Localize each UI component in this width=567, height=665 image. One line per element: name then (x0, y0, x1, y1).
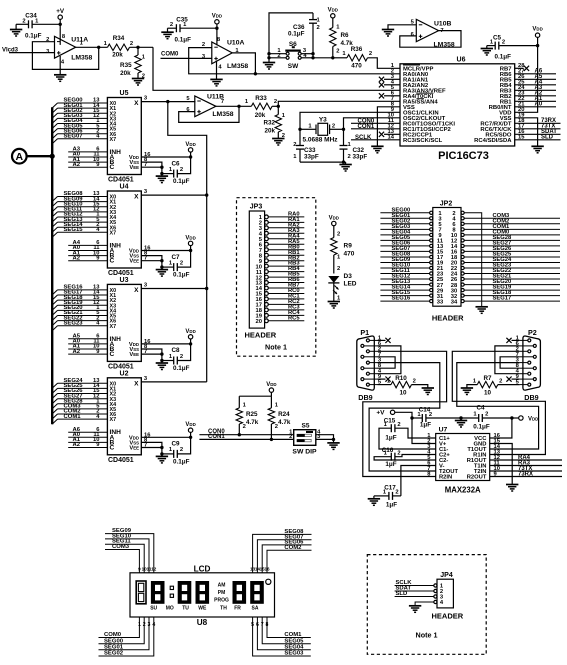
wire JP3 pin2 net RA1 (259, 217, 305, 227)
wire node A to bus (27, 154, 55, 159)
wire R36 to PIC MCLR (368, 58, 401, 69)
node U4 X junction (205, 193, 208, 196)
svg-text:2: 2 (336, 49, 339, 55)
svg-text:X: X (134, 380, 139, 387)
wire JP2 pin23 net SEG11 (380, 268, 444, 278)
wire net SEG07 to U5 X7 (52, 134, 107, 144)
capacitor C16 (382, 447, 401, 468)
wire S6 left pins (269, 54, 286, 63)
op-amp U11B (186, 94, 233, 118)
LCD bottom-left pin numbers (138, 622, 155, 628)
net label SEG04 (284, 644, 304, 650)
wire net COM2 to LCD (267, 550, 312, 573)
wire net A6 to U2 INH (68, 427, 107, 433)
svg-text:8: 8 (266, 622, 269, 628)
svg-text:4.7k: 4.7k (278, 419, 291, 426)
connector P2 DB9 (516, 328, 541, 402)
svg-text:SEG16: SEG16 (392, 296, 411, 302)
resistor R36 (333, 46, 372, 69)
svg-text:LM358: LM358 (71, 54, 92, 61)
wire JP2 pin1 net SEG00 (380, 207, 442, 217)
wire U3 VSS/VEE to ground (141, 344, 163, 362)
wire GND pin15 to ground (490, 444, 513, 485)
svg-text:HEADER: HEADER (432, 612, 464, 621)
svg-text:1μF: 1μF (385, 435, 396, 442)
wire U2 VDD pin16 (141, 432, 190, 438)
svg-text:0.1μF: 0.1μF (173, 178, 190, 185)
capacitor C33 (293, 129, 319, 162)
svg-text:R2IN: R2IN (439, 475, 452, 481)
wire JP4 pin4 to ground (415, 600, 444, 606)
wire C15 pin1 to C1- (379, 428, 436, 449)
wire net A0 to U4 A (68, 245, 107, 251)
svg-text:COM1: COM1 (284, 632, 302, 638)
svg-text:3: 3 (148, 622, 151, 628)
svg-text:2: 2 (413, 378, 416, 384)
wire JP2 pin24 net SEG22 (451, 268, 560, 278)
LCD digit TU (178, 581, 192, 604)
svg-text:7: 7 (144, 162, 147, 168)
net label SEG03 (284, 651, 304, 657)
capacitor C14 (412, 407, 461, 429)
ground for R10 (422, 388, 434, 395)
LCD top-right pin numbers (250, 567, 270, 572)
capacitor C6 (162, 157, 191, 185)
wire JP3 pin19 net RC4 (256, 310, 305, 320)
svg-text:R32: R32 (263, 120, 275, 127)
wire U3 X output (141, 288, 206, 290)
capacitor C9 (162, 437, 191, 465)
ground for C5 (481, 46, 493, 55)
svg-text:0.1μF: 0.1μF (173, 365, 190, 372)
svg-text:P2: P2 (528, 328, 537, 337)
driver U7 MAX232A (427, 427, 500, 495)
svg-text:PM: PM (218, 590, 226, 596)
svg-text:COM2: COM2 (284, 545, 302, 551)
wire U10A pin4 to ground (216, 61, 218, 79)
svg-text:SEG07: SEG07 (64, 134, 84, 140)
svg-text:2: 2 (143, 622, 146, 628)
wire JP3 pin6 net RA5 (259, 239, 305, 249)
wire P1 pin3 to MAX232 T2OUT (369, 363, 440, 471)
svg-text:2: 2 (337, 266, 340, 272)
svg-text:C5: C5 (493, 35, 502, 42)
wire net SEG25 to U2 X1 (52, 383, 107, 393)
LCD dot circle (266, 579, 271, 584)
capacitor C15 (384, 417, 401, 441)
net label SEG06 (284, 540, 304, 546)
capacitor C17 (374, 484, 401, 508)
wire JP2 pin12 net SEG28 (451, 235, 560, 245)
ground for U11A (54, 75, 66, 82)
wire net COM1 to U2 X7 (52, 414, 107, 424)
svg-text:SU: SU (150, 606, 157, 612)
node VDD/C5 junction (536, 44, 539, 47)
wire net SEG13 to U4 X5 (52, 217, 107, 227)
resistor R32 (263, 106, 285, 139)
wire JP3 pin18 net RC3 (256, 305, 305, 315)
resistor R35 (120, 47, 146, 79)
ground for PIC VSS pin19 (531, 146, 543, 153)
wire net SEG01 to U5 X1 (52, 103, 107, 113)
svg-text:Note 1: Note 1 (416, 630, 438, 639)
wire P2 pin2 to MAX232 R1IN (452, 351, 545, 454)
wire JP3 pin8 net RB1 (259, 250, 305, 260)
wire net SEG15 to U4 X7 (52, 227, 107, 237)
svg-text:U3: U3 (120, 277, 129, 284)
resistor R6 (330, 25, 354, 58)
svg-text:10: 10 (484, 389, 492, 396)
svg-text:CD4051: CD4051 (108, 177, 134, 184)
wire net SEG17 to U3 X1 (52, 290, 107, 300)
svg-text:DB9: DB9 (524, 393, 538, 402)
svg-text:JP2: JP2 (440, 200, 453, 207)
no-connect P1 pin1 (378, 338, 391, 343)
net COM0 (161, 51, 179, 57)
svg-text:COM3: COM3 (112, 544, 130, 550)
wire net A1 to U5 B (68, 157, 107, 163)
wire net A0 to U3 A (68, 339, 107, 345)
wire net A2 to U5 C (68, 162, 107, 168)
svg-text:RC4/SDI/SDA: RC4/SDI/SDA (474, 138, 512, 144)
svg-text:R2OUT: R2OUT (467, 475, 487, 481)
svg-text:SEG15: SEG15 (64, 227, 84, 233)
wire JP3 pin10 net RB3 (256, 261, 305, 271)
svg-text:X: X (134, 194, 139, 201)
svg-text:2: 2 (180, 167, 183, 173)
LCD digit FR (233, 581, 247, 604)
wire VDD to PIC pin20 (515, 46, 538, 113)
wire JP3 pin17 net RC2 (256, 299, 305, 309)
capacitor C34 (16, 13, 60, 40)
svg-text:470: 470 (351, 63, 362, 70)
wire U11A feedback (32, 42, 98, 70)
svg-text:5.0688 MHz: 5.0688 MHz (303, 136, 339, 143)
svg-text:2: 2 (499, 378, 502, 384)
resistor R10 (378, 375, 428, 397)
svg-text:2: 2 (395, 490, 398, 496)
wire JP2 pin30 net SEG19 (451, 285, 560, 295)
wire net SEG07 to LCD (257, 540, 311, 573)
crystal Y3 (300, 116, 344, 143)
node VDD/C35 junction (215, 27, 218, 30)
wire C16 pin2 to C2+ (395, 455, 436, 457)
svg-text:SLD: SLD (541, 135, 554, 141)
svg-text:PROG: PROG (214, 598, 229, 604)
wire R33 to PIC RA5 (278, 101, 400, 106)
node C32 ground junction (342, 160, 345, 163)
svg-text:SEG17: SEG17 (493, 296, 512, 302)
wire JP3 pin11 net RB4 (256, 266, 304, 276)
svg-text:A2: A2 (72, 162, 80, 168)
JP3 dashed outline Note 1 box (237, 198, 316, 357)
wire +V to V+ pin2 (395, 412, 436, 443)
ground for R35 (132, 79, 144, 86)
svg-text:U4: U4 (120, 184, 129, 191)
svg-text:4.7k: 4.7k (246, 419, 259, 426)
wire net SEG14 to U4 X6 (52, 222, 107, 232)
svg-text:12: 12 (151, 567, 157, 572)
wire net SEG06 to LCD (262, 545, 311, 573)
wire JP2 pin27 net SEG13 (380, 279, 443, 289)
ground for D3 (328, 302, 340, 309)
net label SEG10 (112, 533, 132, 539)
svg-text:SEG01: SEG01 (104, 644, 124, 650)
svg-text:MAX232A: MAX232A (445, 485, 481, 494)
wire net A0 to U5 A (68, 152, 107, 158)
ground for S5 (327, 443, 339, 450)
svg-text:R6: R6 (341, 32, 350, 39)
wire net SEG09 to LCD (105, 534, 154, 573)
wire JP3 pin14 net RB7 (256, 283, 305, 293)
wire JP2 pin16 net SEG26 (451, 246, 560, 256)
wire P1 pin2 to MAX232 R2IN (363, 351, 447, 476)
wire JP2 pin10 net COM0 (451, 229, 560, 239)
no-connect P2 pin1 (506, 338, 519, 343)
wire net SEG22 to U3 X6 (52, 315, 107, 325)
wire JP2 pin2 to ground (452, 211, 481, 307)
net A3 at PIC pin24 (515, 85, 556, 91)
svg-text:7: 7 (144, 256, 147, 262)
svg-text:470: 470 (344, 250, 355, 257)
node A (12, 149, 27, 164)
no-connect PIC pin4 (379, 82, 400, 87)
JP4 dashed outline Note 1 box (367, 555, 486, 655)
no-connect PIC pin3 (379, 77, 400, 82)
no-connect P1 pin9 (378, 377, 391, 382)
wire JP2 pin3 net SEG01 (380, 213, 442, 223)
wire Vlcd to PIC RA3 (153, 47, 400, 90)
svg-text:A2: A2 (72, 255, 80, 261)
svg-text:2: 2 (397, 451, 400, 457)
power VDD at U10A (212, 14, 222, 29)
svg-text:R33: R33 (255, 95, 267, 102)
svg-text:SEG02: SEG02 (104, 651, 124, 657)
wire U5 VDD pin16 (141, 152, 190, 158)
wire JP2 pin26 net SEG21 (451, 274, 560, 284)
power +V terminal (376, 410, 394, 417)
svg-text:U2: U2 (120, 370, 129, 377)
svg-text:TU: TU (182, 606, 189, 612)
wire net COM2 to U2 X6 (52, 409, 107, 419)
LCD digit SA (250, 581, 264, 604)
svg-text:2: 2 (180, 260, 183, 266)
wire net A2 to U4 C (68, 255, 107, 261)
wire net A1 to U2 B (68, 437, 107, 443)
wire JP3 pin4 net RA3 (259, 228, 305, 238)
svg-text:R25: R25 (246, 411, 258, 418)
svg-text:SW: SW (288, 63, 299, 70)
svg-text:4: 4 (152, 622, 155, 628)
wire net SEG06 to U5 X6 (52, 128, 107, 138)
wire JP3 pin7 net RB0 (259, 244, 305, 254)
svg-text:34: 34 (451, 299, 458, 305)
connector JP4 header (416, 572, 464, 639)
no-connect PIC pin28 (515, 66, 529, 71)
svg-text:C4: C4 (476, 405, 485, 412)
capacitor C5 (487, 35, 538, 61)
wire JP2 pin11 net SEG05 (380, 235, 443, 245)
power VDD at U2 (185, 422, 195, 439)
svg-text:SA: SA (252, 606, 259, 612)
wire U5 VSS/VEE to ground (141, 157, 163, 175)
svg-text:COM0: COM0 (161, 51, 179, 57)
wire net SEG05 to U5 X5 (52, 123, 107, 133)
node U11A output junction (97, 46, 100, 49)
wire C16 pin1 to C2- (374, 457, 436, 460)
svg-text:6: 6 (256, 622, 259, 628)
svg-text:SEG09: SEG09 (112, 528, 132, 534)
net SDAT at PIC pin16 (515, 129, 561, 135)
wire JP3 pin15 net RC0 (256, 288, 305, 298)
wire net SEG16 to U3 X0 (52, 285, 107, 295)
svg-text:R24: R24 (278, 411, 290, 418)
wire VDD to U10A pin8 (216, 28, 218, 45)
wire Vlcd3 to U11A pin3 (9, 52, 55, 54)
no-connect PIC pin13 (379, 132, 400, 137)
net label COM1 (284, 632, 302, 638)
wire JP2 pin32 net SEG18 (451, 290, 560, 300)
svg-text:JP3: JP3 (250, 204, 263, 211)
svg-text:U10B: U10B (434, 20, 451, 27)
svg-text:2: 2 (348, 154, 351, 160)
wire U4 X output (141, 194, 206, 196)
svg-text:PIC16C73: PIC16C73 (438, 150, 489, 162)
wire C15 pin2 to C1+ (395, 428, 436, 438)
net RA4 at MAX232 pin12 (490, 455, 562, 461)
multiplexer U4 CD4051 (107, 184, 147, 278)
svg-text:A: A (16, 151, 24, 163)
net SCLK at PIC pin14 (351, 135, 400, 141)
resistor R25 (236, 396, 259, 435)
svg-text:SEG03: SEG03 (284, 651, 304, 657)
net label SEG05 (284, 638, 304, 644)
svg-text:0.1μF: 0.1μF (473, 424, 490, 431)
net label SEG08 (284, 529, 304, 535)
svg-text:AM: AM (218, 582, 226, 588)
svg-text:20k: 20k (120, 70, 131, 77)
svg-text:2: 2 (429, 412, 432, 418)
wire net A2 to U3 C (68, 349, 107, 355)
svg-text:20k: 20k (255, 112, 266, 119)
wire JP3 pin1 net RA0 (259, 212, 305, 222)
wire U11A pin4 to ground (59, 56, 61, 75)
wire JP2 pin18 net SEG25 (451, 252, 560, 262)
ground for U5 (156, 174, 168, 183)
op-amp U10B (411, 19, 455, 48)
svg-text:2: 2 (274, 99, 277, 105)
wire JP3 pin9 net RB2 (259, 255, 305, 265)
power VDD at U5 (185, 142, 195, 159)
net CON1 to S5 (199, 434, 293, 441)
svg-text:FR: FR (234, 606, 241, 612)
wire JP3 pin5 net RA4 (259, 233, 305, 243)
svg-text:2: 2 (293, 142, 296, 148)
svg-text:73RX: 73RX (518, 471, 533, 477)
LCD top-left pin numbers (138, 567, 157, 572)
wire U5 X output (140, 101, 142, 103)
svg-text:0.1μF: 0.1μF (173, 272, 190, 279)
wire net SEG08 to U4 X0 (52, 191, 107, 201)
wire U11B output to R33 (216, 105, 252, 107)
wire JP2 pin6 net COM2 (452, 218, 560, 228)
power VDD at U3 (185, 329, 195, 346)
wire JP3 pin3 net RA2 (259, 222, 305, 232)
svg-text:X7: X7 (110, 417, 117, 423)
net A1 at PIC pin22 (515, 96, 556, 102)
multiplexer U2 CD4051 (107, 370, 147, 464)
net label SEG00 (104, 638, 124, 644)
net label COM0 (104, 632, 122, 638)
wire net SEG10 to U4 X2 (52, 201, 107, 211)
svg-text:S6: S6 (289, 41, 297, 48)
wire R34 to R35 junction (130, 46, 154, 48)
power VDD at U4 (185, 235, 195, 252)
svg-text:2: 2 (485, 412, 488, 418)
svg-text:X: X (134, 100, 139, 107)
wire C36 top loop (269, 13, 313, 54)
svg-text:U7: U7 (439, 427, 448, 434)
svg-text:Note 1: Note 1 (265, 343, 287, 352)
svg-text:MO: MO (166, 606, 174, 612)
power VDD at R6 (328, 8, 338, 28)
wire JP2 pin8 net COM1 (452, 224, 560, 234)
svg-text:R7: R7 (483, 375, 492, 382)
wire net A0 to U2 A (68, 432, 107, 438)
wire mux X bus (141, 100, 206, 382)
svg-text:2: 2 (22, 18, 25, 24)
svg-text:20k: 20k (264, 127, 275, 134)
power VDD at R9 (329, 215, 339, 237)
wire COM0 to U10A pin3 (161, 57, 212, 59)
wire S5 to ground (316, 435, 335, 443)
wire net SEG01 to LCD (99, 617, 150, 650)
wire P1 pin7 to pin8 jumper (378, 357, 396, 368)
wire net SEG08 to LCD (253, 534, 312, 572)
svg-text:C: C (110, 351, 115, 358)
svg-text:R34: R34 (113, 35, 125, 42)
node R33/R32 junction (272, 105, 280, 108)
svg-text:WE: WE (198, 606, 207, 612)
net label SEG11 (112, 539, 131, 545)
svg-text:C9: C9 (171, 441, 180, 448)
svg-text:2: 2 (180, 447, 183, 453)
wire net COM0 to LCD (99, 617, 140, 638)
svg-text:2: 2 (289, 434, 292, 440)
wire JP2 pin21 net SEG10 (380, 263, 444, 273)
wire net SEG19 to U3 X3 (52, 300, 107, 310)
svg-text:U10A: U10A (227, 40, 244, 47)
svg-text:HEADER: HEADER (432, 313, 464, 322)
svg-text:DB9: DB9 (358, 393, 372, 402)
wire net SEG27 to U2 X3 (52, 393, 107, 403)
wire JP4 pin1 net SCLK (395, 580, 444, 590)
net RA3 at MAX232 pin11 (490, 460, 562, 466)
wire net COM1 to LCD (267, 617, 311, 638)
node +V/C34 junction (59, 23, 62, 26)
wire net SEG03 to U5 X3 (52, 113, 107, 123)
ground for PIC VSS pin8 (371, 146, 383, 153)
wire net SEG04 to U5 X4 (52, 118, 107, 128)
ground mid C14/C4 (455, 416, 467, 427)
svg-text:SEG05: SEG05 (284, 638, 304, 644)
svg-text:SEG11: SEG11 (112, 539, 131, 545)
wire net SEG28 to U2 X4 (52, 399, 107, 409)
svg-text:X7: X7 (110, 324, 117, 330)
wire net A3 to U5 INH (68, 147, 107, 153)
wire net SEG00 to LCD (99, 617, 145, 644)
wire JP2 pin14 net SEG27 (451, 240, 560, 250)
